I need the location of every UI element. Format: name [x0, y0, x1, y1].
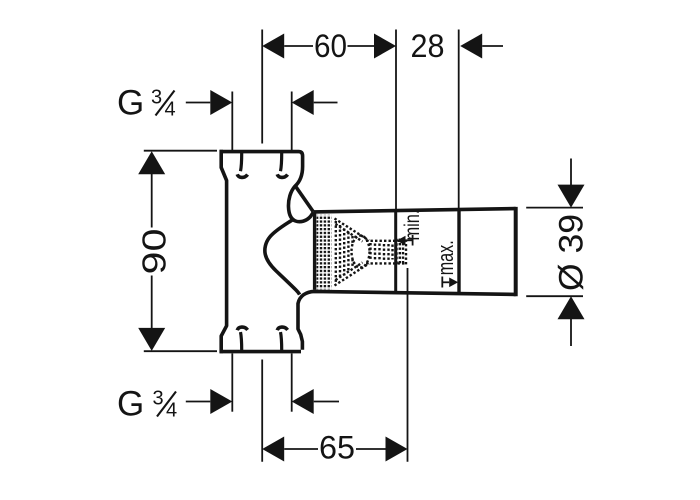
svg-text:Ø 39: Ø 39 — [553, 214, 591, 291]
svg-text:max.: max. — [433, 240, 458, 275]
svg-text:G: G — [117, 385, 144, 424]
svg-text:60: 60 — [314, 28, 347, 64]
svg-text:3: 3 — [151, 87, 162, 109]
svg-text:28: 28 — [411, 28, 445, 64]
svg-text:min.: min. — [401, 210, 424, 241]
svg-text:90: 90 — [136, 229, 173, 275]
svg-text:3: 3 — [153, 388, 164, 410]
svg-text:65: 65 — [319, 430, 355, 466]
svg-text:G: G — [117, 84, 144, 123]
